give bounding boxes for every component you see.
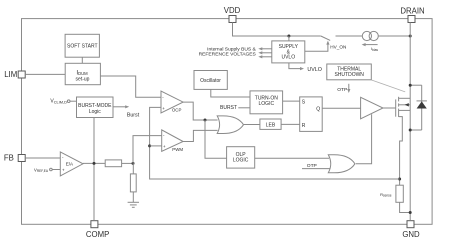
ground symbol (128, 202, 139, 207)
wire VCLIM to burst-mode box (70, 100, 77, 102)
node VCLIM input circle (50, 99, 70, 105)
block SUPPLY UVLO (272, 41, 305, 63)
wire current sense line (150, 107, 400, 179)
transistor power MOSFET (396, 97, 411, 185)
wire Rsense to ground rail (400, 202, 411, 212)
wire resistor to ground (132, 192, 134, 202)
svg-text:COMP: COMP (86, 230, 109, 239)
svg-text:VDD: VDD (224, 6, 241, 15)
latch SR (300, 97, 323, 131)
signal OTP into OR2 bottom input (302, 163, 330, 169)
svg-text:UVLO: UVLO (281, 55, 295, 61)
svg-text:LIM: LIM (4, 70, 17, 79)
svg-text:DRAIN: DRAIN (400, 7, 424, 16)
block TURN-ON LOGIC (250, 91, 283, 114)
label internal supply bus (199, 47, 257, 58)
wire LIM to IDUM (25, 73, 65, 75)
diode body (410, 85, 427, 130)
wire IDUM to OCP upper input (100, 76, 161, 97)
or-gate OR1 (217, 116, 243, 134)
wire Oscillator to turn-on logic (211, 89, 250, 97)
wire OLP logic to OR2 top input (255, 157, 329, 159)
svg-text:PWM: PWM (172, 147, 183, 152)
wire latch Q to driver (322, 107, 360, 109)
wire junction down to supply box (288, 36, 290, 41)
wire resistor to node (122, 162, 134, 164)
svg-text:REFERENCE VOLTAGES: REFERENCE VOLTAGES (199, 52, 257, 58)
svg-text:E/A: E/A (66, 162, 73, 167)
wire current source to drain rail (378, 35, 410, 37)
wire node down to resistor vertical (132, 163, 134, 174)
svg-text:set-up: set-up (76, 77, 90, 83)
wire sense to PWM plus input (150, 145, 162, 147)
svg-text:+: + (163, 144, 166, 149)
svg-text:VCLIM,D: VCLIM,D (50, 99, 67, 105)
wire SOFT START to IDUM (81, 57, 83, 63)
wire burst-mode box bottom to COMP node vertical (93, 118, 95, 221)
svg-text:-: - (62, 154, 64, 159)
label Ibias arrow (362, 43, 379, 52)
node supply tap junction (287, 35, 290, 38)
resistor Rsense (380, 185, 403, 202)
arrows supply bus left (258, 47, 272, 58)
svg-text:HV_ON: HV_ON (330, 45, 346, 50)
svg-text:Rsense: Rsense (380, 192, 392, 198)
node divider junction (132, 162, 135, 165)
pin COMP (86, 221, 109, 239)
pin VDD (224, 6, 241, 23)
resistor horizontal after E/A (105, 160, 121, 167)
drain rail vertical (409, 23, 411, 221)
driver buffer (361, 97, 383, 119)
svg-text:LOGIC: LOGIC (259, 101, 275, 107)
signal HV_ON arrow to switch (305, 41, 347, 52)
signal arrow Burst out of burst-mode logic (113, 105, 140, 118)
svg-text:S: S (302, 99, 306, 105)
block LEB (260, 119, 281, 129)
svg-text:GND: GND (402, 230, 420, 239)
wire PWM output to OR1 bottom input (183, 130, 218, 141)
op-amp E/A (60, 152, 83, 176)
svg-text:SOFT START: SOFT START (67, 44, 98, 50)
svg-text:Ibias: Ibias (371, 46, 378, 52)
wire LEB to latch R (281, 123, 300, 125)
svg-text:LOGIC: LOGIC (233, 157, 249, 163)
node OCP output branch junction (204, 119, 207, 122)
pin GND (402, 221, 420, 239)
node VREF,EA input circle (34, 167, 52, 173)
signal UVLO output (289, 63, 322, 73)
leader line thermal to mosfet (372, 80, 406, 92)
wire FB to E/A (25, 157, 60, 159)
node drain rail top junction (409, 35, 412, 38)
signal BURST into turn-on logic (220, 105, 250, 111)
svg-text:-: - (163, 133, 165, 138)
svg-text:BURST: BURST (220, 105, 237, 111)
wire OR1 to LEB (244, 124, 260, 126)
svg-text:+: + (62, 168, 65, 173)
node sense to PWM junction (148, 144, 151, 147)
svg-text:+: + (162, 106, 165, 111)
node sense junction (398, 178, 401, 181)
wire node up to PWM input (133, 136, 162, 164)
pin FB (4, 153, 25, 162)
comparator OCP (161, 91, 183, 113)
or-gate OR2 (328, 155, 355, 173)
pin LIM (4, 70, 25, 79)
svg-text:OCP: OCP (172, 108, 182, 113)
block OLP LOGIC (227, 147, 255, 168)
comparator PWM (162, 130, 184, 152)
signal OTP down arrow (337, 84, 350, 93)
wire VDD rail to startup switch (233, 23, 321, 37)
wire E/A output to junction (83, 162, 105, 164)
svg-text:Burst: Burst (127, 113, 140, 119)
node diode bottom junction (409, 129, 412, 132)
wire VREF to E/A (52, 169, 60, 171)
block IDUM set-up (65, 63, 100, 84)
block Oscillator (194, 71, 227, 90)
svg-text:Oscillator: Oscillator (200, 78, 221, 84)
resistor vertical to ground (130, 174, 136, 192)
IC boundary frame (22, 19, 433, 225)
svg-text:IDUM: IDUM (76, 69, 88, 76)
svg-text:FB: FB (4, 153, 14, 162)
current source Ibias circles (362, 31, 378, 40)
block THERMAL SHUTDOWN (327, 64, 372, 80)
pin DRAIN (400, 7, 424, 23)
svg-text:Internal Supply BUS &: Internal Supply BUS & (207, 47, 256, 53)
svg-text:R: R (302, 123, 306, 129)
node E/A output junction (93, 162, 96, 165)
wire junction down to OLP logic (205, 120, 227, 158)
svg-text:SHUTDOWN: SHUTDOWN (334, 72, 364, 78)
node ground rail junction (409, 211, 412, 214)
wire turn-on logic to latch S (283, 100, 300, 102)
svg-text:UVLO: UVLO (307, 67, 321, 73)
switch HV startup (321, 36, 330, 40)
svg-text:OTP: OTP (337, 87, 347, 93)
wire OR2 output up to driver (356, 114, 372, 164)
svg-text:Q: Q (316, 106, 320, 112)
wire OCP output to OR1 top input (183, 102, 218, 120)
svg-text:BURST-MODE: BURST-MODE (78, 103, 112, 109)
svg-text:LEB: LEB (266, 123, 276, 129)
block BURST-MODE Logic (77, 97, 114, 118)
wire driver to gate (383, 107, 396, 109)
svg-text:VREF,EA: VREF,EA (34, 167, 49, 173)
block SOFT START (65, 34, 99, 57)
node diode top junction (409, 84, 412, 87)
svg-text:-: - (162, 95, 164, 100)
svg-text:Logic: Logic (89, 109, 101, 115)
wire switch to current source (336, 35, 363, 37)
